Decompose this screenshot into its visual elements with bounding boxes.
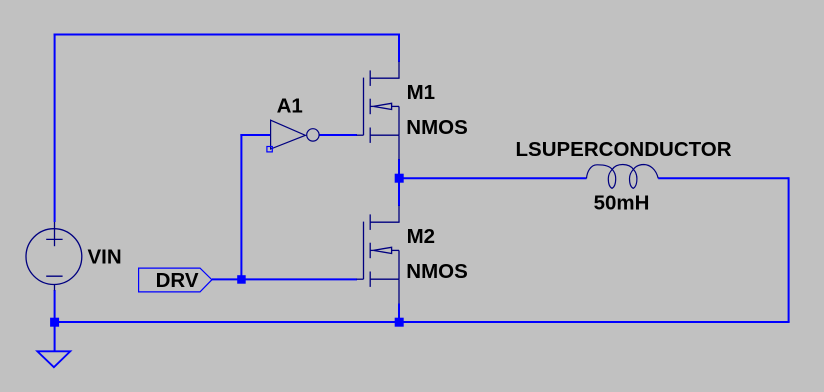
wire M2 source down	[398, 304, 400, 323]
op-amp style inverter A1	[271, 120, 319, 149]
junction node at inverter input / DRV	[237, 275, 246, 284]
wire inverter input horizontal	[240, 134, 271, 136]
svg-text:DRV: DRV	[156, 269, 199, 292]
wire inductor to right corner	[658, 177, 788, 179]
wire DRV tip to junction	[212, 278, 242, 280]
voltage source VIN	[26, 222, 82, 291]
svg-text:VIN: VIN	[88, 245, 122, 268]
wire top horizontal	[54, 34, 400, 36]
wire node to inductor	[399, 177, 587, 179]
transistor M1	[357, 62, 400, 160]
wire inverter input vertical	[240, 134, 242, 279]
svg-text:A1: A1	[277, 94, 303, 117]
wire ground lead	[54, 322, 56, 351]
wire VIN bottom	[54, 290, 56, 322]
ground symbol	[37, 351, 70, 367]
svg-text:50mH: 50mH	[594, 191, 650, 214]
svg-text:NMOS: NMOS	[406, 116, 468, 139]
inverter unconnected pin marker	[267, 147, 272, 152]
inductor LSUPERCONDUCTOR	[587, 165, 659, 189]
wire right vertical	[788, 177, 790, 322]
wire bottom horizontal	[55, 321, 790, 323]
svg-text:LSUPERCONDUCTOR: LSUPERCONDUCTOR	[516, 138, 732, 161]
junction node at switch midpoint	[395, 174, 404, 183]
port flag DRV	[139, 268, 212, 292]
wire inverter output to M1 gate	[319, 134, 357, 136]
wire M1 source down	[398, 159, 400, 178]
wire M1 drain riser	[398, 34, 400, 63]
junction node at M2 source on bottom rail	[395, 318, 404, 327]
svg-text:M2: M2	[407, 225, 435, 248]
wire left vertical	[54, 34, 56, 223]
wire junction to M2 gate	[241, 278, 357, 280]
svg-text:NMOS: NMOS	[406, 260, 468, 283]
svg-text:M1: M1	[407, 81, 435, 104]
wire M2 drain riser	[398, 178, 400, 206]
transistor M2	[357, 206, 400, 304]
junction node at VIN bottom on bottom rail	[50, 318, 59, 327]
